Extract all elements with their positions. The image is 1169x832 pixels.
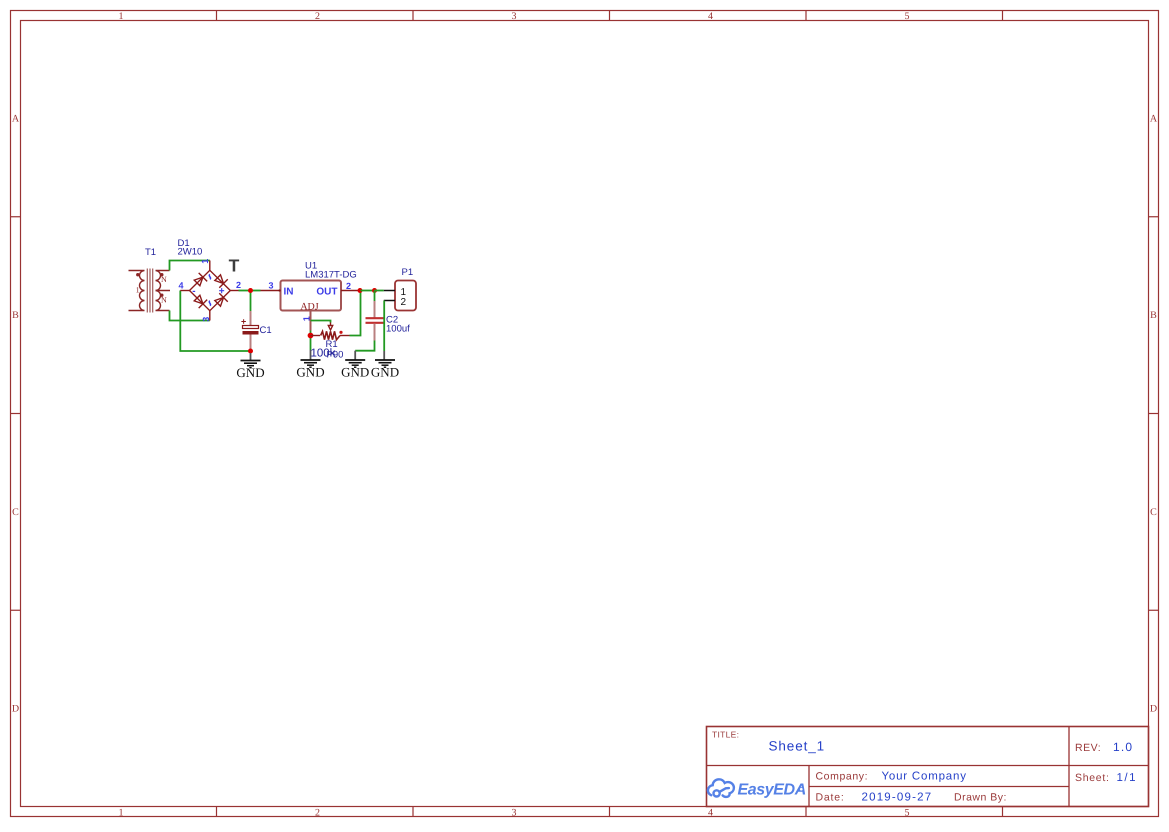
svg-text:3: 3 — [268, 281, 273, 291]
svg-text:LM317T-DG: LM317T-DG — [305, 270, 357, 281]
svg-text:1/1: 1/1 — [1117, 772, 1138, 784]
wire ADJ to wiper — [311, 321, 331, 323]
svg-text:Company:: Company: — [816, 771, 869, 783]
svg-text:Date:: Date: — [816, 792, 845, 804]
frame column tick marks top — [217, 11, 1003, 21]
title block outline — [707, 727, 1149, 807]
svg-text:4: 4 — [708, 11, 713, 22]
potentiometer R1 — [311, 323, 350, 340]
svg-text:Your Company: Your Company — [882, 771, 967, 783]
wire node down to C1 — [250, 291, 252, 314]
svg-text:P1: P1 — [402, 267, 414, 278]
svg-text:TITLE:: TITLE: — [712, 730, 739, 740]
svg-text:A: A — [12, 114, 20, 125]
junction node at OUT — [358, 288, 363, 293]
wire bridge pin 2 to node — [239, 290, 251, 292]
svg-text:REV:: REV: — [1075, 742, 1101, 754]
svg-text:-: - — [192, 286, 195, 297]
bridge AC squiggle top — [209, 274, 210, 279]
title block divider lines — [707, 727, 1149, 807]
svg-text:B: B — [1150, 310, 1157, 321]
svg-text:5: 5 — [905, 808, 910, 819]
svg-text:A: A — [1150, 114, 1158, 125]
connector P1 — [395, 281, 416, 311]
P1 pin 2 — [384, 300, 395, 302]
svg-text:P90: P90 — [327, 350, 344, 361]
frame column labels bottom — [119, 808, 910, 819]
svg-text:C: C — [1150, 507, 1157, 518]
wire secondary top to bridge pin 1 — [170, 261, 210, 271]
frame column labels top — [119, 11, 910, 22]
ground GND 2 — [296, 350, 324, 380]
U1 pin OUT — [341, 290, 361, 292]
wire OUT node to C2 node — [361, 290, 375, 292]
svg-text:3: 3 — [512, 808, 517, 819]
svg-text:T1: T1 — [145, 247, 156, 258]
svg-text:B: B — [12, 310, 19, 321]
svg-text:1: 1 — [119, 808, 124, 819]
svg-text:Sheet_1: Sheet_1 — [769, 739, 826, 754]
svg-text:Sheet:: Sheet: — [1075, 772, 1110, 784]
transformer T1 — [129, 269, 171, 313]
frame row labels left — [12, 114, 20, 715]
svg-text:2: 2 — [315, 11, 320, 22]
svg-text:D: D — [12, 704, 19, 715]
svg-text:4: 4 — [178, 281, 183, 291]
wire C2 node to P1 pin 1 — [375, 290, 384, 292]
ground GND 1 — [236, 353, 264, 380]
bridge polarity marks — [192, 286, 225, 297]
bridge AC squiggle bottom — [209, 301, 210, 306]
svg-text:D: D — [1150, 704, 1157, 715]
svg-text:1.0: 1.0 — [1113, 740, 1133, 754]
frame row tick marks right — [1149, 217, 1159, 611]
svg-text:+: + — [241, 317, 246, 327]
P1 pin 1 — [384, 290, 395, 292]
wire R1 right to OUT node — [350, 291, 361, 336]
svg-text:N: N — [161, 295, 167, 304]
svg-text:+: + — [219, 286, 225, 297]
svg-text:2019-09-27: 2019-09-27 — [862, 792, 933, 804]
svg-text:2: 2 — [315, 808, 320, 819]
frame row tick marks left — [11, 217, 21, 611]
svg-text:N: N — [161, 275, 167, 284]
svg-text:1: 1 — [302, 316, 312, 321]
junction node at bridge output — [248, 288, 253, 293]
svg-text:2: 2 — [236, 280, 241, 290]
svg-text:3: 3 — [201, 317, 211, 322]
svg-text:IN: IN — [284, 287, 294, 298]
svg-text:1: 1 — [200, 259, 210, 264]
bridge rectifier D1 — [180, 261, 238, 321]
wire bridge pin 4 to ground rail — [180, 291, 250, 352]
svg-text:3: 3 — [512, 11, 517, 22]
svg-text:2W10: 2W10 — [178, 247, 203, 258]
svg-text:1: 1 — [136, 286, 140, 295]
wire node to U1 IN — [251, 290, 261, 292]
capacitor C2 — [366, 301, 384, 341]
frame row labels right — [1150, 114, 1158, 715]
svg-text:C: C — [12, 507, 19, 518]
EasyEDA logo registered mark — [800, 788, 803, 791]
svg-text:T: T — [229, 256, 240, 276]
wire P1 pin 2 to GND 4 — [383, 301, 385, 352]
ground GND 3 — [341, 351, 369, 380]
wire C2 bottom to GND 3 — [355, 341, 374, 351]
wire secondary bottom to bridge pin 3 — [170, 311, 210, 321]
U1 pin IN — [261, 290, 281, 292]
capacitor C1 — [241, 311, 259, 351]
svg-text:100uf: 100uf — [386, 324, 410, 335]
svg-text:EasyEDA: EasyEDA — [738, 782, 806, 799]
svg-text:C1: C1 — [260, 325, 272, 336]
svg-text:Drawn By:: Drawn By: — [954, 792, 1007, 804]
svg-text:OUT: OUT — [316, 287, 337, 298]
svg-text:4: 4 — [708, 808, 713, 819]
junction node at R1 left — [308, 333, 314, 339]
svg-text:2: 2 — [401, 297, 407, 308]
ground GND 4 — [371, 351, 399, 380]
wire ADJ node down — [310, 331, 312, 351]
op U1 regulator body — [281, 281, 342, 311]
svg-text:1: 1 — [119, 11, 124, 22]
junction node at C2 top — [372, 288, 377, 293]
wire C2 node down — [374, 291, 376, 303]
U1 pin ADJ — [310, 311, 312, 331]
svg-text:5: 5 — [905, 11, 910, 22]
frame column tick marks bottom — [217, 807, 1003, 817]
junction node at C1 bottom — [248, 349, 253, 354]
svg-text:2: 2 — [346, 281, 351, 291]
EasyEDA logo cloud — [708, 779, 734, 797]
